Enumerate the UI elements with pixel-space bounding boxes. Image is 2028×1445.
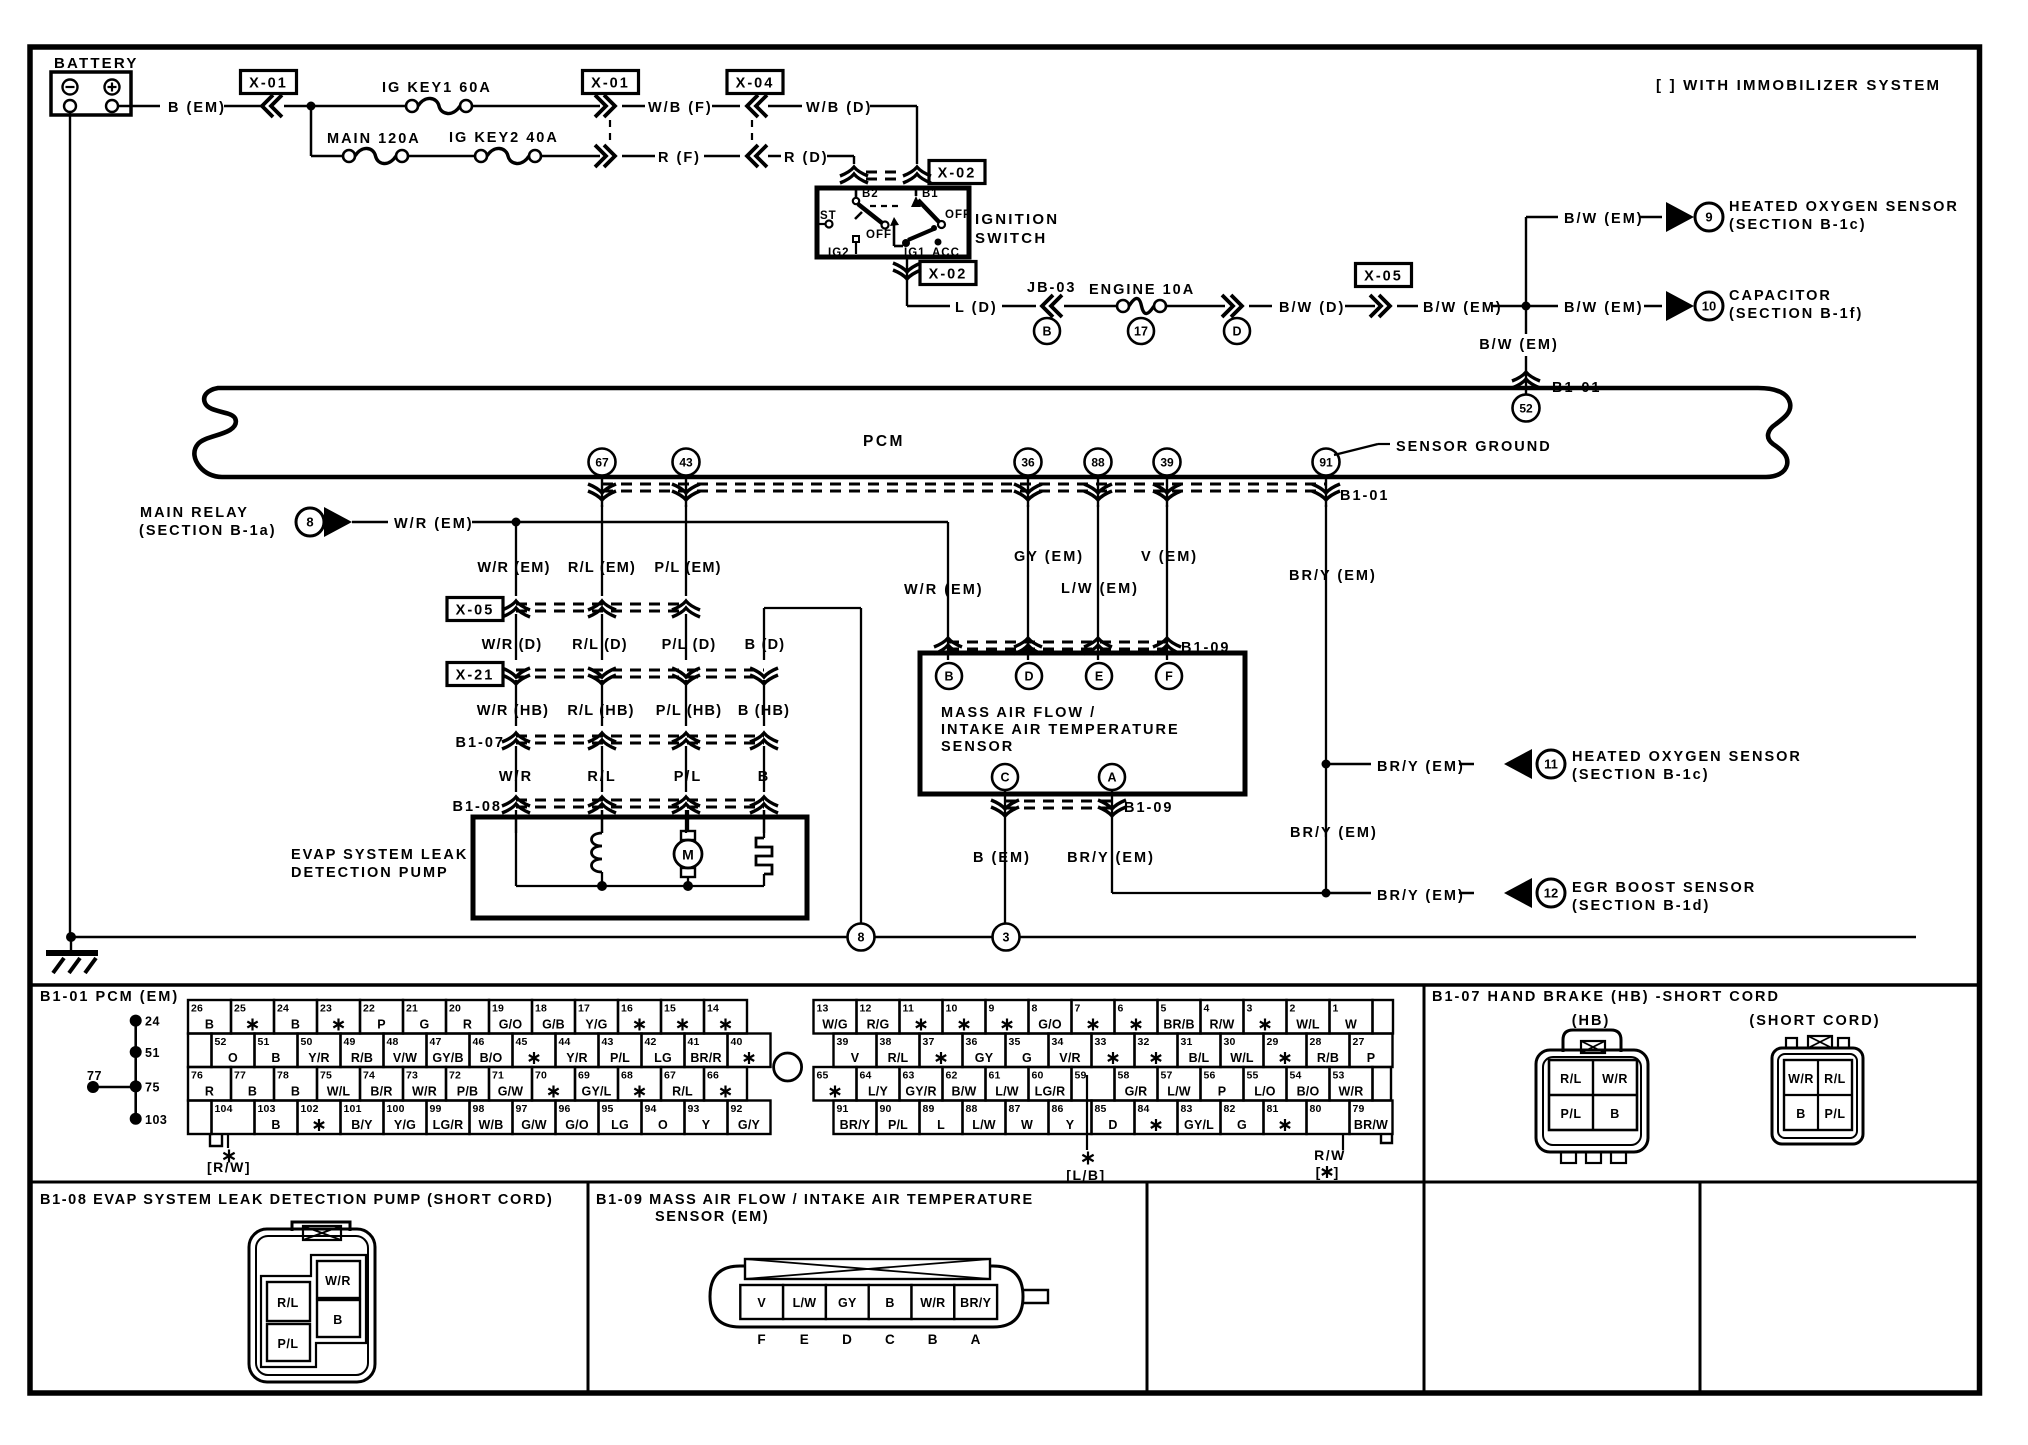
svg-text:R/G: R/G bbox=[867, 1018, 890, 1032]
svg-text:W/R (EM): W/R (EM) bbox=[477, 560, 550, 576]
svg-text:B: B bbox=[944, 670, 953, 684]
svg-text:E: E bbox=[800, 1332, 810, 1347]
svg-text:93: 93 bbox=[688, 1103, 700, 1115]
svg-text:32: 32 bbox=[1138, 1036, 1150, 1048]
svg-text:BR/Y (EM): BR/Y (EM) bbox=[1290, 825, 1378, 841]
svg-text:P/L: P/L bbox=[610, 1051, 630, 1065]
svg-text:B2: B2 bbox=[862, 188, 879, 200]
svg-text:R/L: R/L bbox=[1824, 1072, 1846, 1086]
svg-text:W/R: W/R bbox=[920, 1296, 945, 1310]
svg-text:81: 81 bbox=[1267, 1103, 1279, 1115]
svg-text:G/W: G/W bbox=[521, 1118, 547, 1132]
svg-text:DETECTION PUMP: DETECTION PUMP bbox=[291, 865, 449, 881]
svg-text:BR/Y: BR/Y bbox=[840, 1118, 871, 1132]
svg-text:22: 22 bbox=[363, 1003, 375, 1015]
svg-text:49: 49 bbox=[344, 1036, 356, 1048]
svg-text:80: 80 bbox=[1310, 1103, 1322, 1115]
svg-text:(SHORT CORD): (SHORT CORD) bbox=[1749, 1013, 1880, 1029]
svg-text:L/W (EM): L/W (EM) bbox=[1061, 581, 1139, 597]
svg-text:36: 36 bbox=[1021, 455, 1035, 469]
svg-text:P/L: P/L bbox=[1825, 1107, 1846, 1121]
svg-text:R: R bbox=[205, 1085, 214, 1099]
svg-text:23: 23 bbox=[320, 1003, 332, 1015]
svg-text:65: 65 bbox=[817, 1070, 829, 1082]
svg-text:86: 86 bbox=[1052, 1103, 1064, 1115]
svg-text:97: 97 bbox=[516, 1103, 528, 1115]
svg-text:P: P bbox=[1218, 1085, 1227, 1099]
svg-text:V: V bbox=[757, 1296, 766, 1310]
svg-text:44: 44 bbox=[559, 1036, 571, 1048]
svg-text:SENSOR: SENSOR bbox=[941, 739, 1014, 755]
svg-text:B: B bbox=[271, 1051, 280, 1065]
svg-text:103: 103 bbox=[258, 1103, 276, 1115]
svg-text:MASS AIR FLOW /: MASS AIR FLOW / bbox=[941, 705, 1096, 721]
svg-text:63: 63 bbox=[903, 1070, 915, 1082]
svg-text:53: 53 bbox=[1333, 1070, 1345, 1082]
svg-text:103: 103 bbox=[145, 1113, 167, 1127]
svg-text:85: 85 bbox=[1095, 1103, 1107, 1115]
svg-text:B1-01: B1-01 bbox=[1340, 488, 1390, 504]
svg-text:45: 45 bbox=[516, 1036, 528, 1048]
svg-text:L (D): L (D) bbox=[955, 300, 998, 316]
svg-text:IG KEY1 60A: IG KEY1 60A bbox=[382, 80, 492, 96]
svg-text:R (D): R (D) bbox=[784, 150, 829, 166]
svg-text:B: B bbox=[291, 1018, 300, 1032]
svg-text:95: 95 bbox=[602, 1103, 614, 1115]
svg-text:6: 6 bbox=[1118, 1003, 1124, 1015]
svg-text:GY/L: GY/L bbox=[1184, 1118, 1214, 1132]
svg-text:17: 17 bbox=[1134, 325, 1148, 339]
svg-text:JB-03: JB-03 bbox=[1027, 280, 1077, 296]
svg-text:OFF: OFF bbox=[866, 229, 892, 241]
svg-text:D: D bbox=[842, 1332, 852, 1347]
svg-text:D: D bbox=[1108, 1118, 1117, 1132]
svg-text:W/R: W/R bbox=[499, 769, 533, 785]
svg-text:83: 83 bbox=[1181, 1103, 1193, 1115]
svg-text:64: 64 bbox=[860, 1070, 872, 1082]
svg-text:24: 24 bbox=[277, 1003, 289, 1015]
svg-text:BR/Y (EM): BR/Y (EM) bbox=[1067, 850, 1155, 866]
svg-text:42: 42 bbox=[645, 1036, 657, 1048]
svg-text:W/R: W/R bbox=[1788, 1072, 1814, 1086]
svg-text:39: 39 bbox=[1160, 455, 1174, 469]
svg-text:39: 39 bbox=[837, 1036, 849, 1048]
svg-text:79: 79 bbox=[1353, 1103, 1365, 1115]
svg-text:B (EM): B (EM) bbox=[168, 100, 226, 116]
svg-text:F: F bbox=[1165, 670, 1173, 684]
svg-text:C: C bbox=[885, 1332, 895, 1347]
svg-text:B: B bbox=[271, 1118, 280, 1132]
svg-text:8: 8 bbox=[1032, 1003, 1038, 1015]
svg-text:36: 36 bbox=[966, 1036, 978, 1048]
svg-text:P/L (D): P/L (D) bbox=[662, 637, 717, 653]
svg-text:43: 43 bbox=[679, 455, 693, 469]
svg-text:68: 68 bbox=[621, 1070, 633, 1082]
svg-text:B: B bbox=[758, 769, 770, 785]
svg-text:76: 76 bbox=[191, 1070, 203, 1082]
svg-text:BR/Y (EM): BR/Y (EM) bbox=[1377, 888, 1465, 904]
svg-text:55: 55 bbox=[1247, 1070, 1259, 1082]
svg-text:B: B bbox=[1610, 1107, 1620, 1121]
svg-text:13: 13 bbox=[817, 1003, 829, 1015]
svg-text:B/R: B/R bbox=[370, 1085, 392, 1099]
svg-text:L/W: L/W bbox=[995, 1085, 1019, 1099]
svg-text:101: 101 bbox=[344, 1103, 362, 1115]
svg-text:O: O bbox=[658, 1118, 668, 1132]
svg-text:60: 60 bbox=[1032, 1070, 1044, 1082]
svg-text:G/O: G/O bbox=[1038, 1018, 1062, 1032]
svg-text:G/R: G/R bbox=[1125, 1085, 1148, 1099]
svg-text:L: L bbox=[937, 1118, 945, 1132]
svg-text:X-01: X-01 bbox=[591, 76, 630, 92]
svg-text:B/W (EM): B/W (EM) bbox=[1564, 300, 1644, 316]
svg-text:G/B: G/B bbox=[542, 1018, 565, 1032]
svg-text:Y/G: Y/G bbox=[585, 1018, 607, 1032]
svg-text:W/R (HB): W/R (HB) bbox=[477, 703, 549, 719]
svg-text:B/O: B/O bbox=[480, 1051, 503, 1065]
svg-text:GY: GY bbox=[975, 1051, 994, 1065]
svg-text:52: 52 bbox=[1519, 401, 1533, 415]
svg-text:88: 88 bbox=[1091, 455, 1105, 469]
svg-text:51: 51 bbox=[145, 1046, 160, 1060]
svg-text:X-05: X-05 bbox=[456, 603, 495, 619]
svg-text:W/B (F): W/B (F) bbox=[648, 100, 713, 116]
svg-text:SENSOR GROUND: SENSOR GROUND bbox=[1396, 439, 1552, 455]
svg-text:24: 24 bbox=[145, 1015, 160, 1029]
svg-text:70: 70 bbox=[535, 1070, 547, 1082]
svg-text:104: 104 bbox=[215, 1103, 233, 1115]
svg-text:R/L: R/L bbox=[587, 769, 616, 785]
svg-text:L/W: L/W bbox=[793, 1296, 817, 1310]
svg-text:9: 9 bbox=[1705, 210, 1712, 225]
svg-text:MAIN 120A: MAIN 120A bbox=[327, 131, 421, 147]
svg-text:BR/Y (EM): BR/Y (EM) bbox=[1377, 759, 1465, 775]
svg-text:10: 10 bbox=[946, 1003, 958, 1015]
svg-text:P/L: P/L bbox=[674, 769, 703, 785]
svg-text:28: 28 bbox=[1310, 1036, 1322, 1048]
svg-text:34: 34 bbox=[1052, 1036, 1064, 1048]
svg-text:40: 40 bbox=[731, 1036, 743, 1048]
svg-text:B/W (D): B/W (D) bbox=[1279, 300, 1345, 316]
svg-text:W/R: W/R bbox=[412, 1085, 437, 1099]
svg-text:IGNITION: IGNITION bbox=[975, 211, 1059, 228]
svg-text:17: 17 bbox=[578, 1003, 590, 1015]
svg-text:74: 74 bbox=[363, 1070, 375, 1082]
svg-text:V/R: V/R bbox=[1059, 1051, 1080, 1065]
svg-text:G/O: G/O bbox=[565, 1118, 589, 1132]
svg-text:BR/W: BR/W bbox=[1354, 1118, 1388, 1132]
svg-text:3: 3 bbox=[1247, 1003, 1253, 1015]
svg-text:R/B: R/B bbox=[351, 1051, 373, 1065]
svg-text:LG/R: LG/R bbox=[1035, 1085, 1066, 1099]
svg-text:11: 11 bbox=[903, 1003, 915, 1015]
svg-text:W: W bbox=[1021, 1118, 1033, 1132]
svg-text:19: 19 bbox=[492, 1003, 504, 1015]
svg-text:4: 4 bbox=[1204, 1003, 1210, 1015]
svg-text:EGR BOOST SENSOR: EGR BOOST SENSOR bbox=[1572, 880, 1756, 896]
svg-text:W/L: W/L bbox=[327, 1085, 351, 1099]
svg-text:R (F): R (F) bbox=[658, 150, 701, 166]
svg-text:57: 57 bbox=[1161, 1070, 1173, 1082]
svg-text:X-01: X-01 bbox=[249, 76, 288, 92]
svg-text:G: G bbox=[1022, 1051, 1032, 1065]
svg-text:30: 30 bbox=[1224, 1036, 1236, 1048]
svg-text:56: 56 bbox=[1204, 1070, 1216, 1082]
svg-text:91: 91 bbox=[837, 1103, 849, 1115]
svg-text:O: O bbox=[228, 1051, 238, 1065]
svg-text:Y/G: Y/G bbox=[394, 1118, 416, 1132]
svg-text:77: 77 bbox=[87, 1069, 102, 1083]
svg-text:71: 71 bbox=[492, 1070, 504, 1082]
svg-text:99: 99 bbox=[430, 1103, 442, 1115]
svg-text:10: 10 bbox=[1702, 299, 1716, 314]
svg-text:GY (EM): GY (EM) bbox=[1014, 549, 1084, 565]
svg-text:B1: B1 bbox=[922, 188, 939, 200]
svg-text:62: 62 bbox=[946, 1070, 958, 1082]
svg-text:W/L: W/L bbox=[1296, 1018, 1320, 1032]
svg-text:E: E bbox=[1095, 670, 1103, 684]
svg-text:B: B bbox=[928, 1332, 938, 1347]
svg-text:R/L (EM): R/L (EM) bbox=[568, 560, 636, 576]
svg-text:98: 98 bbox=[473, 1103, 485, 1115]
svg-text:41: 41 bbox=[688, 1036, 700, 1048]
svg-text:W/R (D): W/R (D) bbox=[482, 637, 543, 653]
svg-text:67: 67 bbox=[664, 1070, 676, 1082]
svg-text:ST: ST bbox=[820, 210, 837, 222]
svg-text:R/L (D): R/L (D) bbox=[572, 637, 628, 653]
svg-text:84: 84 bbox=[1138, 1103, 1150, 1115]
svg-text:B1-01 PCM (EM): B1-01 PCM (EM) bbox=[40, 989, 179, 1005]
svg-text:47: 47 bbox=[430, 1036, 442, 1048]
svg-text:B1-07 HAND BRAKE (HB) -SHORT C: B1-07 HAND BRAKE (HB) -SHORT CORD bbox=[1432, 989, 1780, 1005]
svg-text:W/B: W/B bbox=[479, 1118, 504, 1132]
svg-text:5: 5 bbox=[1161, 1003, 1167, 1015]
svg-text:[R/W]: [R/W] bbox=[207, 1159, 251, 1175]
svg-text:R/L: R/L bbox=[1560, 1072, 1582, 1086]
svg-text:MAIN RELAY: MAIN RELAY bbox=[140, 505, 249, 521]
svg-text:SENSOR (EM): SENSOR (EM) bbox=[655, 1209, 769, 1225]
svg-text:52: 52 bbox=[215, 1036, 227, 1048]
svg-text:B/L: B/L bbox=[1189, 1051, 1210, 1065]
svg-text:ENGINE 10A: ENGINE 10A bbox=[1089, 282, 1195, 298]
svg-text:2: 2 bbox=[1290, 1003, 1296, 1015]
svg-text:LG: LG bbox=[611, 1118, 629, 1132]
svg-text:Y: Y bbox=[702, 1118, 711, 1132]
svg-text:(SECTION B-1d): (SECTION B-1d) bbox=[1572, 898, 1710, 914]
svg-text:L/W: L/W bbox=[972, 1118, 996, 1132]
svg-text:(SECTION B-1c): (SECTION B-1c) bbox=[1572, 767, 1710, 783]
svg-text:[: [ bbox=[1316, 1164, 1321, 1180]
svg-text:1: 1 bbox=[1333, 1003, 1339, 1015]
svg-text:15: 15 bbox=[664, 1003, 676, 1015]
svg-text:11: 11 bbox=[1544, 757, 1558, 772]
svg-text:CAPACITOR: CAPACITOR bbox=[1729, 288, 1832, 304]
svg-text:31: 31 bbox=[1181, 1036, 1193, 1048]
svg-text:L/W: L/W bbox=[1167, 1085, 1191, 1099]
svg-text:26: 26 bbox=[191, 1003, 203, 1015]
svg-text:14: 14 bbox=[707, 1003, 719, 1015]
svg-text:96: 96 bbox=[559, 1103, 571, 1115]
svg-text:102: 102 bbox=[301, 1103, 319, 1115]
svg-text:75: 75 bbox=[320, 1070, 332, 1082]
svg-text:Y: Y bbox=[1066, 1118, 1075, 1132]
svg-text:35: 35 bbox=[1009, 1036, 1021, 1048]
svg-text:W/R (EM): W/R (EM) bbox=[904, 582, 984, 598]
svg-text:X-21: X-21 bbox=[456, 668, 495, 684]
svg-text:75: 75 bbox=[145, 1080, 160, 1094]
svg-text:M: M bbox=[682, 847, 694, 863]
svg-text:20: 20 bbox=[449, 1003, 461, 1015]
svg-text:GY/R: GY/R bbox=[905, 1085, 936, 1099]
svg-text:R/W: R/W bbox=[1210, 1018, 1235, 1032]
svg-text:(SECTION B-1f): (SECTION B-1f) bbox=[1729, 306, 1863, 322]
svg-text:90: 90 bbox=[880, 1103, 892, 1115]
svg-text:B/W (EM): B/W (EM) bbox=[1564, 211, 1644, 227]
svg-text:PCM: PCM bbox=[863, 433, 905, 450]
svg-text:G: G bbox=[1237, 1118, 1247, 1132]
svg-text:51: 51 bbox=[258, 1036, 270, 1048]
svg-text:(HB): (HB) bbox=[1572, 1013, 1611, 1029]
svg-text:W/G: W/G bbox=[822, 1018, 848, 1032]
svg-text:D: D bbox=[1024, 670, 1033, 684]
svg-text:W/L: W/L bbox=[1230, 1051, 1254, 1065]
svg-text:100: 100 bbox=[387, 1103, 405, 1115]
svg-text:R/W: R/W bbox=[1314, 1147, 1346, 1163]
svg-text:D: D bbox=[1232, 325, 1241, 339]
svg-text:8: 8 bbox=[306, 515, 313, 530]
svg-text:GY: GY bbox=[838, 1296, 857, 1310]
svg-text:R/L (HB): R/L (HB) bbox=[567, 703, 634, 719]
svg-text:37: 37 bbox=[923, 1036, 935, 1048]
svg-text:27: 27 bbox=[1353, 1036, 1365, 1048]
svg-text:W/R: W/R bbox=[1339, 1085, 1364, 1099]
svg-text:]: ] bbox=[1334, 1164, 1339, 1180]
svg-text:P/L: P/L bbox=[888, 1118, 908, 1132]
svg-text:58: 58 bbox=[1118, 1070, 1130, 1082]
svg-text:B (D): B (D) bbox=[745, 637, 786, 653]
svg-text:[L/B]: [L/B] bbox=[1066, 1167, 1105, 1183]
svg-text:L/Y: L/Y bbox=[868, 1085, 889, 1099]
svg-text:67: 67 bbox=[595, 455, 609, 469]
svg-text:ACC: ACC bbox=[932, 247, 960, 259]
svg-text:B: B bbox=[205, 1018, 214, 1032]
svg-text:R/L: R/L bbox=[888, 1051, 909, 1065]
svg-text:W/R: W/R bbox=[325, 1274, 351, 1288]
svg-text:(SECTION B-1c): (SECTION B-1c) bbox=[1729, 217, 1867, 233]
svg-text:82: 82 bbox=[1224, 1103, 1236, 1115]
svg-text:38: 38 bbox=[880, 1036, 892, 1048]
svg-text:B: B bbox=[885, 1296, 894, 1310]
svg-text:B/W (EM): B/W (EM) bbox=[1479, 337, 1559, 353]
svg-text:77: 77 bbox=[234, 1070, 246, 1082]
svg-text:P/L (HB): P/L (HB) bbox=[656, 703, 723, 719]
svg-text:48: 48 bbox=[387, 1036, 399, 1048]
svg-text:BR/B: BR/B bbox=[1163, 1018, 1194, 1032]
svg-text:W/R: W/R bbox=[1602, 1072, 1628, 1086]
svg-text:25: 25 bbox=[234, 1003, 246, 1015]
svg-text:P: P bbox=[1367, 1051, 1376, 1065]
svg-text:GY/L: GY/L bbox=[582, 1085, 612, 1099]
svg-text:72: 72 bbox=[449, 1070, 461, 1082]
svg-text:A: A bbox=[971, 1332, 981, 1347]
svg-text:W/R (EM): W/R (EM) bbox=[394, 516, 474, 532]
svg-text:B: B bbox=[291, 1085, 300, 1099]
svg-text:B1-09: B1-09 bbox=[1124, 800, 1174, 816]
svg-text:B1-08: B1-08 bbox=[453, 799, 503, 815]
svg-text:P: P bbox=[377, 1018, 386, 1032]
svg-text:V/W: V/W bbox=[393, 1051, 417, 1065]
svg-text:R/B: R/B bbox=[1317, 1051, 1339, 1065]
svg-text:GY/B: GY/B bbox=[432, 1051, 463, 1065]
svg-text:88: 88 bbox=[966, 1103, 978, 1115]
svg-text:P/L (EM): P/L (EM) bbox=[654, 560, 721, 576]
svg-text:OFF: OFF bbox=[945, 209, 971, 221]
svg-text:IG KEY2 40A: IG KEY2 40A bbox=[449, 130, 559, 146]
svg-text:BR/R: BR/R bbox=[690, 1051, 721, 1065]
svg-text:50: 50 bbox=[301, 1036, 313, 1048]
svg-text:[ ] WITH IMMOBILIZER SYSTEM: [ ] WITH IMMOBILIZER SYSTEM bbox=[1656, 77, 1941, 94]
svg-text:3: 3 bbox=[1003, 931, 1010, 945]
svg-text:W/B (D): W/B (D) bbox=[806, 100, 872, 116]
svg-text:C: C bbox=[1000, 771, 1009, 785]
svg-text:29: 29 bbox=[1267, 1036, 1279, 1048]
svg-text:(SECTION B-1a): (SECTION B-1a) bbox=[139, 523, 277, 539]
svg-text:B/Y: B/Y bbox=[351, 1118, 373, 1132]
svg-text:B: B bbox=[1796, 1107, 1806, 1121]
svg-text:BATTERY: BATTERY bbox=[54, 55, 139, 72]
svg-text:EVAP SYSTEM LEAK: EVAP SYSTEM LEAK bbox=[291, 847, 468, 863]
svg-text:SWITCH: SWITCH bbox=[975, 230, 1047, 247]
svg-text:HEATED OXYGEN SENSOR: HEATED OXYGEN SENSOR bbox=[1729, 199, 1959, 215]
svg-text:G/Y: G/Y bbox=[738, 1118, 761, 1132]
svg-text:B1-01: B1-01 bbox=[1552, 380, 1602, 396]
svg-text:B (EM): B (EM) bbox=[973, 850, 1031, 866]
svg-text:V (EM): V (EM) bbox=[1141, 549, 1198, 565]
svg-text:HEATED OXYGEN SENSOR: HEATED OXYGEN SENSOR bbox=[1572, 749, 1802, 765]
svg-text:66: 66 bbox=[707, 1070, 719, 1082]
svg-text:69: 69 bbox=[578, 1070, 590, 1082]
svg-text:B1-08 EVAP SYSTEM LEAK DETECTI: B1-08 EVAP SYSTEM LEAK DETECTION PUMP (S… bbox=[40, 1192, 553, 1208]
svg-text:9: 9 bbox=[989, 1003, 995, 1015]
svg-text:B/W: B/W bbox=[952, 1085, 977, 1099]
svg-text:R/L: R/L bbox=[277, 1296, 299, 1310]
svg-text:92: 92 bbox=[731, 1103, 743, 1115]
svg-text:V: V bbox=[851, 1051, 860, 1065]
svg-text:Y/R: Y/R bbox=[566, 1051, 587, 1065]
svg-text:54: 54 bbox=[1290, 1070, 1302, 1082]
svg-text:B: B bbox=[248, 1085, 257, 1099]
svg-text:18: 18 bbox=[535, 1003, 547, 1015]
svg-text:G/O: G/O bbox=[499, 1018, 523, 1032]
svg-text:G/W: G/W bbox=[498, 1085, 524, 1099]
svg-text:12: 12 bbox=[860, 1003, 872, 1015]
svg-text:B: B bbox=[333, 1313, 343, 1327]
svg-text:94: 94 bbox=[645, 1103, 657, 1115]
svg-text:LG: LG bbox=[654, 1051, 672, 1065]
svg-text:IG2: IG2 bbox=[828, 247, 850, 259]
svg-text:LG/R: LG/R bbox=[433, 1118, 464, 1132]
svg-text:P/L: P/L bbox=[278, 1337, 299, 1351]
svg-text:78: 78 bbox=[277, 1070, 289, 1082]
svg-text:X-04: X-04 bbox=[736, 76, 775, 92]
svg-text:B/W (EM): B/W (EM) bbox=[1423, 300, 1503, 316]
svg-text:46: 46 bbox=[473, 1036, 485, 1048]
svg-text:BR/Y: BR/Y bbox=[960, 1296, 991, 1310]
svg-text:B1-07: B1-07 bbox=[456, 735, 506, 751]
svg-text:X-02: X-02 bbox=[938, 166, 977, 182]
svg-text:X-05: X-05 bbox=[1364, 269, 1403, 285]
svg-text:A: A bbox=[1107, 771, 1116, 785]
